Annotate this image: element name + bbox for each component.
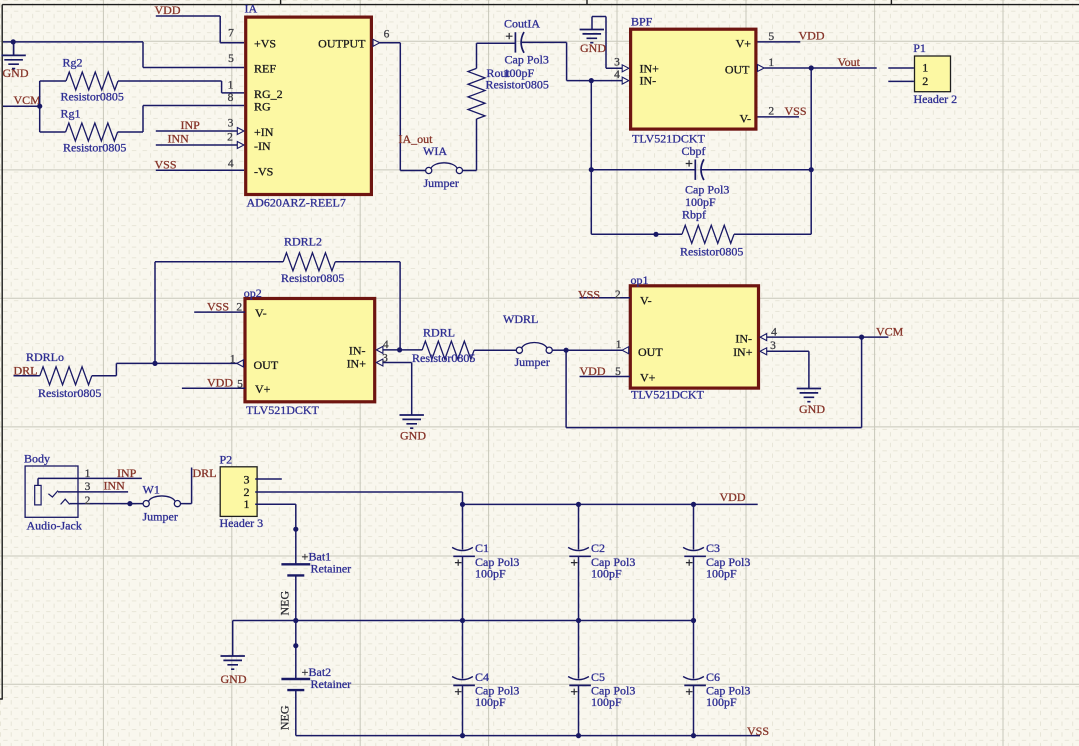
svg-text:AD620ARZ-REEL7: AD620ARZ-REEL7: [247, 195, 346, 209]
pin 1 OUT op1: [622, 347, 629, 354]
svg-text:5: 5: [615, 366, 621, 378]
wire Bat2 top: [295, 621, 297, 680]
node GND-wire junction: [11, 39, 16, 44]
svg-text:op2: op2: [244, 286, 262, 300]
node VDD C3: [691, 502, 696, 507]
resistor Rg1: [40, 131, 66, 133]
svg-text:Body: Body: [24, 452, 50, 466]
svg-text:1: 1: [85, 468, 91, 480]
svg-text:Resistor0805: Resistor0805: [412, 351, 475, 365]
wire INN: [156, 144, 238, 146]
svg-text:VDD: VDD: [207, 375, 233, 389]
svg-text:VCM: VCM: [876, 325, 904, 339]
svg-text:VSS: VSS: [747, 724, 769, 738]
svg-text:VDD: VDD: [720, 490, 746, 504]
capacitor C4: [462, 621, 464, 679]
svg-text:2: 2: [236, 301, 242, 313]
svg-text:Resistor0805: Resistor0805: [63, 141, 126, 155]
svg-text:2: 2: [85, 495, 91, 507]
svg-text:BPF: BPF: [631, 14, 653, 28]
node VDD C1: [460, 502, 465, 507]
svg-text:+: +: [302, 665, 309, 679]
svg-text:DRL: DRL: [193, 466, 217, 480]
svg-text:C6: C6: [706, 670, 720, 684]
svg-text:OUTPUT: OUTPUT: [318, 36, 366, 50]
svg-text:100pF: 100pF: [475, 566, 506, 580]
svg-text:op1: op1: [631, 273, 649, 287]
jumper WIA: [400, 170, 425, 172]
svg-text:V-: V-: [739, 112, 751, 126]
connector P1 body: [915, 56, 951, 92]
svg-text:100pF: 100pF: [591, 695, 622, 709]
wire CoutIA to IN-: [567, 42, 623, 80]
svg-text:1: 1: [922, 61, 928, 75]
wire Bat1 to NEG rail: [295, 575, 297, 620]
wire Rg left vertical: [39, 81, 41, 132]
svg-text:7: 7: [228, 27, 234, 39]
node op2 out: [152, 361, 157, 366]
svg-text:VDD: VDD: [155, 3, 181, 17]
svg-text:P1: P1: [913, 41, 926, 55]
pin 1 OUT op2: [237, 360, 244, 367]
jack sleeve: [35, 485, 41, 505]
svg-text:RG: RG: [254, 100, 271, 114]
capacitor C1: [462, 504, 464, 549]
svg-text:1: 1: [230, 353, 236, 365]
svg-text:2: 2: [615, 289, 621, 301]
wire IN- down: [590, 81, 592, 235]
node VSS C5: [576, 733, 581, 738]
op-amp IA body: [246, 17, 372, 194]
node Rbpf wire: [653, 232, 658, 237]
svg-text:V-: V-: [255, 306, 267, 320]
jack contact 2: [61, 499, 70, 504]
svg-text:5: 5: [768, 31, 774, 43]
wire VCM stub: [3, 105, 40, 107]
svg-text:V+: V+: [640, 370, 656, 384]
svg-text:WDRL: WDRL: [503, 312, 538, 326]
svg-text:RDRL: RDRL: [423, 326, 455, 340]
svg-text:5: 5: [237, 379, 243, 391]
svg-text:OUT: OUT: [254, 358, 279, 372]
svg-text:3: 3: [614, 57, 620, 69]
op-amp BPF body: [631, 29, 756, 129]
pin 1 jack: [38, 478, 142, 485]
capacitor C6: [693, 621, 695, 679]
svg-text:4: 4: [614, 69, 620, 81]
svg-text:Retainer: Retainer: [311, 677, 352, 691]
svg-text:VSS: VSS: [578, 287, 600, 301]
svg-text:GND: GND: [580, 41, 606, 55]
op-amp op1 body: [630, 286, 758, 388]
svg-text:Rg2: Rg2: [63, 56, 83, 70]
wire Vout down: [810, 68, 812, 234]
node mid C4: [460, 618, 465, 623]
svg-text:2: 2: [768, 105, 774, 117]
resistor RDRLo: [14, 375, 40, 377]
svg-text:GND: GND: [3, 66, 29, 80]
power VDD top: [156, 16, 244, 43]
svg-text:TLV521DCKT: TLV521DCKT: [631, 388, 705, 402]
wire op1 feedback loop: [566, 337, 862, 428]
svg-text:3: 3: [85, 481, 91, 493]
svg-text:3: 3: [770, 340, 776, 352]
node VSS C6: [691, 733, 696, 738]
node VCM junction: [37, 104, 42, 109]
svg-text:Resistor0805: Resistor0805: [680, 244, 743, 258]
svg-text:VSS: VSS: [207, 299, 229, 313]
ground GND top-left: [1, 42, 25, 69]
svg-text:IN+: IN+: [347, 356, 367, 370]
svg-text:Jumper: Jumper: [143, 510, 178, 524]
battery Bat2: [281, 678, 310, 680]
svg-text:IN-: IN-: [640, 74, 657, 88]
pin 2 jack: [70, 503, 143, 505]
svg-text:V-: V-: [640, 294, 652, 308]
capacitor C2: [578, 504, 580, 549]
ground GND op2: [411, 363, 413, 416]
pin 4 IN- op1: [760, 334, 767, 341]
node Vout branch: [809, 65, 814, 70]
resistor Rbpf: [591, 233, 682, 235]
jumper W1: [143, 501, 149, 507]
wire IA output down: [380, 43, 401, 171]
wire VDD rail: [463, 503, 758, 505]
node mid Bat: [293, 618, 298, 623]
battery Bat1: [281, 563, 310, 565]
resistor Rout: [476, 119, 478, 171]
svg-text:Cbpf: Cbpf: [682, 144, 706, 158]
svg-text:NEG: NEG: [278, 591, 292, 616]
svg-text:RDRL2: RDRL2: [284, 235, 322, 249]
op-amp op2 body: [245, 299, 375, 402]
svg-text:4: 4: [228, 158, 234, 170]
resistor Rg2: [40, 80, 66, 82]
wire VSS to -VS: [156, 169, 244, 171]
svg-text:INN: INN: [168, 131, 190, 145]
connector P2 body: [220, 467, 257, 517]
resistor RDRL2: [155, 261, 283, 263]
svg-text:OUT: OUT: [725, 62, 750, 76]
svg-text:3: 3: [228, 117, 234, 129]
ground GND at BPF IN+: [592, 17, 622, 69]
svg-text:4: 4: [771, 326, 777, 338]
node Cbpf left: [589, 167, 594, 172]
svg-text:V+: V+: [255, 382, 271, 396]
connector jack body: [25, 466, 78, 517]
svg-text:VDD: VDD: [799, 29, 825, 43]
pin 5 V+ op1: [580, 376, 631, 378]
pin 2 V- op1: [580, 297, 631, 299]
capacitor C5: [578, 621, 580, 679]
svg-text:Audio-Jack: Audio-Jack: [27, 518, 82, 532]
svg-text:V+: V+: [736, 36, 752, 50]
svg-text:-IN: -IN: [254, 139, 271, 153]
svg-text:5: 5: [228, 53, 234, 65]
svg-text:Vout: Vout: [838, 55, 861, 69]
svg-text:VDD: VDD: [580, 364, 606, 378]
wire GND to REF: [3, 42, 244, 68]
svg-text:Resistor0805: Resistor0805: [281, 271, 344, 285]
svg-text:Retainer: Retainer: [311, 562, 352, 576]
svg-text:GND: GND: [799, 402, 825, 416]
svg-text:INP: INP: [181, 118, 201, 132]
svg-text:VSS: VSS: [155, 157, 177, 171]
wire RDRL2 right down: [399, 262, 401, 350]
svg-text:NEG: NEG: [278, 705, 292, 730]
wire Bat2 to VSS rail: [295, 690, 297, 736]
svg-text:REF: REF: [254, 61, 276, 75]
svg-text:+VS: +VS: [254, 36, 276, 50]
svg-text:Jumper: Jumper: [515, 355, 550, 369]
svg-text:P2: P2: [220, 453, 233, 467]
ground GND bottom: [232, 621, 234, 657]
svg-text:Header 2: Header 2: [914, 92, 958, 106]
svg-text:1: 1: [616, 339, 622, 351]
svg-text:IN-: IN-: [735, 332, 752, 346]
svg-text:C1: C1: [475, 541, 489, 555]
node Cbpf right: [809, 167, 814, 172]
wire WDRL to op1: [566, 349, 622, 351]
svg-text:CoutIA: CoutIA: [504, 17, 540, 31]
node Bat2 stub: [293, 643, 298, 648]
svg-text:Rbpf: Rbpf: [682, 207, 706, 221]
pin 5 V+ op2: [182, 387, 245, 389]
svg-text:INN: INN: [104, 478, 126, 492]
svg-text:DRL: DRL: [14, 363, 38, 377]
svg-text:C4: C4: [475, 670, 489, 684]
svg-text:6: 6: [384, 29, 390, 41]
svg-text:-VS: -VS: [254, 165, 273, 179]
node RDRL2-RDRL: [397, 347, 402, 352]
wire NEG mid rail: [233, 620, 694, 622]
jack contact 3: [48, 491, 58, 497]
wire INP: [156, 130, 238, 132]
wire Vout: [764, 67, 877, 69]
capacitor CoutIA: [477, 42, 516, 44]
svg-text:GND: GND: [221, 672, 247, 686]
svg-text:Resistor0805: Resistor0805: [38, 386, 101, 400]
svg-text:100pF: 100pF: [706, 566, 737, 580]
node Bat1 top: [293, 527, 298, 532]
capacitor Cbpf: [591, 169, 695, 171]
svg-text:2: 2: [922, 74, 928, 88]
svg-text:IN+: IN+: [733, 345, 753, 359]
node IN- branch: [589, 78, 594, 83]
svg-text:Jumper: Jumper: [424, 176, 459, 190]
pin 4 IN- op2: [376, 346, 383, 353]
svg-text:W1: W1: [143, 482, 160, 496]
svg-text:+: +: [302, 549, 309, 563]
svg-text:IN-: IN-: [349, 343, 366, 357]
svg-text:+IN: +IN: [254, 125, 274, 139]
node VSS C4: [460, 733, 465, 738]
svg-text:C2: C2: [591, 541, 605, 555]
svg-text:1: 1: [768, 57, 774, 69]
wire RDRL2 left down: [154, 262, 156, 364]
svg-text:100pF: 100pF: [475, 695, 506, 709]
svg-text:C5: C5: [591, 670, 605, 684]
svg-text:RDRLo: RDRLo: [26, 350, 64, 364]
svg-text:Cap Pol3: Cap Pol3: [505, 52, 549, 66]
ground GND op1: [808, 351, 810, 388]
svg-text:GND: GND: [400, 429, 426, 443]
svg-text:1: 1: [244, 497, 250, 511]
jumper WDRL: [516, 347, 522, 353]
pin 3 IN+ op2: [376, 359, 383, 366]
svg-text:4: 4: [383, 339, 389, 351]
capacitor C3: [693, 504, 695, 549]
node VDD C2: [576, 502, 581, 507]
pin 3 jack: [58, 491, 128, 493]
pin 3 IN+ op1: [760, 348, 767, 355]
svg-text:2: 2: [227, 132, 233, 144]
svg-text:Resistor0805: Resistor0805: [61, 89, 124, 103]
svg-text:TLV521DCKT: TLV521DCKT: [246, 403, 320, 417]
resistor RDRL: [400, 349, 423, 351]
svg-text:Header 3: Header 3: [220, 516, 264, 530]
svg-text:Resistor0805: Resistor0805: [486, 78, 549, 92]
svg-text:1: 1: [228, 79, 234, 91]
svg-text:100pF: 100pF: [706, 695, 737, 709]
svg-text:OUT: OUT: [638, 345, 663, 359]
svg-text:IA: IA: [245, 2, 258, 16]
svg-text:8: 8: [228, 92, 234, 104]
svg-text:3: 3: [382, 353, 388, 365]
wire VSS rail: [296, 735, 760, 737]
node mid C5: [576, 618, 581, 623]
pin 2 V- op2: [194, 311, 245, 313]
node VCM: [859, 335, 864, 340]
node WDRL out: [564, 348, 569, 353]
node mid C6: [691, 618, 696, 623]
svg-text:VSS: VSS: [785, 104, 807, 118]
node W1 in: [127, 501, 132, 506]
svg-text:C3: C3: [706, 541, 720, 555]
svg-text:VCM: VCM: [14, 93, 42, 107]
svg-text:WIA: WIA: [423, 144, 447, 158]
svg-text:Rg1: Rg1: [61, 106, 81, 120]
svg-text:100pF: 100pF: [591, 566, 622, 580]
